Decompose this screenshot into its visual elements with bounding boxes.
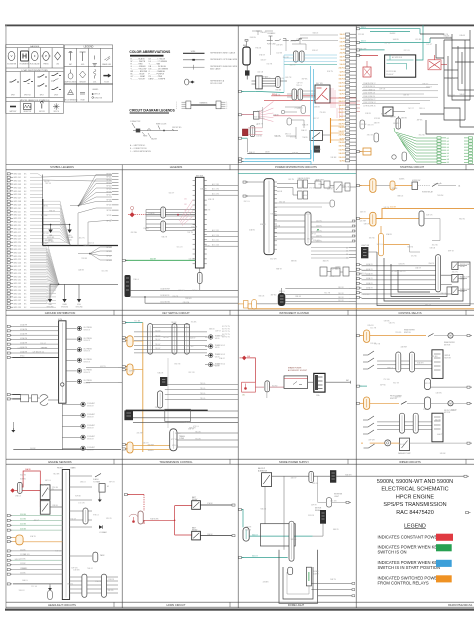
svg-text:52F LG: 52F LG [279, 291, 285, 293]
svg-text:31A GY: 31A GY [219, 357, 226, 360]
svg-text:44F BK: 44F BK [129, 371, 136, 373]
cyan pair bottom [245, 158, 311, 160]
svg-text:GRD 131: GRD 131 [13, 280, 21, 282]
svg-text:43E GN: 43E GN [313, 240, 320, 242]
svg-text:450A WH: 450A WH [20, 324, 28, 327]
sensor S4 [77, 358, 81, 362]
svg-text:30A F1: 30A F1 [339, 33, 344, 36]
svg-text:28C OR: 28C OR [188, 372, 195, 374]
pin row 27 [7, 262, 10, 264]
svg-text:45A OR: 45A OR [395, 395, 402, 398]
svg-text:71B YE: 71B YE [204, 246, 211, 248]
svg-text:126G VT/WH 24: 126G VT/WH 24 [363, 102, 375, 104]
svg-text:70A OR: 70A OR [157, 372, 164, 375]
twisted symbol [185, 79, 189, 85]
svg-text:261 TN: 261 TN [316, 220, 322, 222]
svg-text:HORN CIRCUIT: HORN CIRCUIT [167, 603, 186, 607]
starter relay K1 [256, 76, 263, 89]
ground [61, 284, 69, 308]
svg-text:25A F24: 25A F24 [339, 119, 345, 122]
relay under module [396, 118, 401, 129]
svg-text:SP122: SP122 [106, 255, 111, 257]
connector pin column right side [339, 33, 356, 163]
dome light box [260, 524, 295, 546]
svg-text:37D OR: 37D OR [367, 135, 374, 137]
key-on green feed [122, 259, 195, 261]
svg-text:351 G: 351 G [361, 41, 366, 43]
svg-text:39D RD: 39D RD [308, 515, 315, 517]
svg-text:12B GY: 12B GY [312, 483, 319, 485]
svg-text:88B GN: 88B GN [381, 113, 388, 115]
backlight feed [238, 300, 257, 309]
svg-text:LIGHT: LIGHT [334, 496, 339, 498]
svg-text:75C GN: 75C GN [383, 379, 390, 381]
svg-text:GRD 137: GRD 137 [13, 300, 21, 302]
svg-text:SP107: SP107 [106, 194, 111, 196]
orange rail [142, 323, 144, 453]
svg-text:SPARE POWER SUPPLY: SPARE POWER SUPPLY [279, 460, 309, 464]
svg-text:46A BK: 46A BK [273, 113, 280, 116]
svg-text:133: 133 [184, 210, 187, 212]
svg-text:82A GN: 82A GN [250, 36, 257, 39]
svg-text:S3 772 TN: S3 772 TN [222, 331, 230, 333]
svg-text:FLOW: FLOW [104, 81, 109, 83]
pin row 24 [7, 251, 10, 253]
svg-text:46C TN: 46C TN [79, 238, 86, 240]
svg-text:SWITCH: SWITCH [404, 332, 411, 334]
svg-text:75D BN: 75D BN [320, 112, 327, 114]
svg-text:82B RD: 82B RD [20, 478, 27, 480]
symbol table B (legend) [64, 45, 112, 102]
svg-text:26F LG: 26F LG [385, 42, 391, 44]
svg-text:42B OR: 42B OR [208, 199, 215, 201]
sensor S8 [81, 413, 85, 417]
svg-text:281 OR: 281 OR [338, 300, 344, 302]
pin row 14 [7, 217, 10, 219]
svg-text:791 OR: 791 OR [195, 438, 201, 440]
svg-text:405A GY: 405A GY [366, 273, 374, 276]
svg-text:88E BK: 88E BK [291, 261, 298, 263]
svg-text:10A OR: 10A OR [415, 266, 422, 269]
svg-text:LEGENDS: LEGENDS [170, 165, 183, 169]
teal feed wires top [357, 28, 362, 30]
wiper motor box [432, 350, 443, 379]
teal rail [238, 173, 356, 175]
junction [58, 284, 60, 286]
svg-text:LIGHT: LIGHT [314, 573, 319, 575]
svg-text:FROM CONTROL RELAYS: FROM CONTROL RELAYS [378, 581, 429, 586]
pink distribution fan [239, 114, 244, 116]
switch box [262, 473, 272, 487]
svg-text:41A RD: 41A RD [249, 229, 256, 232]
svg-text:34E GY: 34E GY [360, 211, 367, 213]
red bus wires [264, 85, 330, 100]
svg-text:OIL PRESS: OIL PRESS [83, 348, 91, 350]
svg-text:94F YE: 94F YE [384, 207, 390, 209]
svg-text:36A BN: 36A BN [148, 449, 155, 452]
svg-text:CONNECTOR: CONNECTOR [130, 121, 141, 123]
svg-text:SENSOR: SENSOR [87, 416, 95, 418]
svg-text:SWITCH IS IN START POSITION: SWITCH IS IN START POSITION [378, 565, 441, 570]
orange component [363, 148, 371, 155]
svg-text:30A F31: 30A F31 [339, 145, 345, 148]
svg-text:RELAY: RELAY [192, 529, 198, 532]
svg-text:76A GN: 76A GN [390, 115, 397, 118]
svg-text:HOURMETER: HOURMETER [20, 64, 31, 66]
sensor S6 [77, 379, 81, 383]
svg-text:58A GY: 58A GY [190, 336, 197, 339]
svg-text:86B YE: 86B YE [246, 527, 253, 529]
svg-text:42D WH: 42D WH [360, 221, 367, 223]
svg-text:76D TN: 76D TN [449, 78, 456, 80]
svg-text:50A RD: 50A RD [25, 468, 32, 471]
svg-text:15A F8: 15A F8 [339, 59, 344, 62]
svg-text:G8: G8 [447, 159, 449, 161]
svg-text:M: M [450, 335, 452, 338]
svg-text:59B GY: 59B GY [19, 590, 26, 592]
svg-text:SENSOR: SENSOR [83, 361, 91, 363]
svg-text:784 LG: 784 LG [200, 393, 206, 395]
pink vertical bundle right [331, 88, 335, 108]
svg-text:71E GN: 71E GN [270, 214, 277, 216]
svg-text:GRD 112: GRD 112 [13, 215, 20, 217]
svg-text:17E BN: 17E BN [296, 39, 303, 41]
svg-text:SP103: SP103 [106, 182, 111, 184]
svg-text:GROUND: GROUND [46, 306, 54, 308]
svg-text:B — CONNECTOR NO.: B — CONNECTOR NO. [130, 148, 148, 150]
svg-text:131: 131 [184, 199, 187, 201]
svg-text:53F OR: 53F OR [379, 88, 386, 90]
svg-text:GRD 113: GRD 113 [13, 218, 20, 220]
svg-text:19D RD: 19D RD [369, 238, 376, 240]
svg-text:27D GN: 27D GN [191, 226, 198, 228]
svg-text:5A F11: 5A F11 [340, 70, 345, 73]
washer box [432, 413, 443, 442]
sensor S1 [77, 326, 81, 330]
socket block [314, 373, 325, 392]
svg-text:30B WH: 30B WH [200, 188, 207, 190]
svg-text:LOAD DEVICES/MOTORS: LOAD DEVICES/MOTORS [21, 69, 48, 72]
svg-text:30A F7: 30A F7 [339, 55, 344, 58]
svg-text:70D YE: 70D YE [266, 63, 273, 65]
svg-text:SENSOR: SENSOR [83, 351, 91, 353]
svg-text:GRD 116: GRD 116 [13, 228, 20, 230]
svg-text:SENSOR: SENSOR [87, 438, 95, 440]
svg-text:29F VT: 29F VT [310, 233, 316, 235]
svg-text:86D OR: 86D OR [446, 37, 453, 39]
pin row 34 [7, 286, 10, 288]
svg-text:25D BK: 25D BK [43, 242, 50, 244]
svg-text:MISCELLANEOUS SYMBOLS: MISCELLANEOUS SYMBOLS [20, 99, 50, 102]
svg-text:80C GN: 80C GN [391, 271, 398, 273]
svg-text:CIRCUIT NO.: CIRCUIT NO. [172, 127, 182, 129]
pin row 13 [7, 214, 10, 216]
svg-text:STARTING CIRCUIT: STARTING CIRCUIT [400, 165, 425, 169]
svg-text:60D LB: 60D LB [245, 530, 252, 532]
svg-text:79C RD: 79C RD [344, 187, 351, 189]
svg-text:81C OR: 81C OR [42, 233, 49, 235]
svg-text:22C BN: 22C BN [358, 34, 365, 36]
svg-text:19A BK: 19A BK [399, 178, 406, 181]
svg-text:ACC 195: ACC 195 [212, 193, 219, 196]
svg-text:GRD 111: GRD 111 [13, 211, 20, 213]
motor relay dark box [320, 510, 326, 524]
inline connector pair [186, 101, 221, 109]
svg-text:97A BK: 97A BK [207, 502, 214, 505]
svg-text:SPDT: SPDT [40, 95, 44, 97]
svg-text:59E BK: 59E BK [384, 321, 391, 323]
svg-text:288 OR: 288 OR [338, 287, 344, 289]
svg-text:88D WH: 88D WH [360, 49, 367, 51]
svg-text:91C BK: 91C BK [134, 321, 141, 323]
svg-text:GRD 108: GRD 108 [13, 201, 21, 203]
svg-text:F: F [34, 54, 36, 58]
svg-text:45D OR: 45D OR [449, 95, 456, 97]
svg-text:98A BK: 98A BK [207, 533, 214, 536]
svg-text:17B OR: 17B OR [257, 110, 264, 112]
svg-text:31D YE: 31D YE [451, 409, 458, 411]
svg-text:OIL PRESS: OIL PRESS [83, 338, 91, 340]
svg-text:F5 G6 H7: F5 G6 H7 [387, 74, 394, 76]
svg-text:71A LG: 71A LG [192, 289, 198, 292]
svg-text:11D BN: 11D BN [256, 135, 263, 137]
svg-text:REPRESENTS WIRE / CABLE: REPRESENTS WIRE / CABLE [210, 51, 236, 54]
svg-text:28F LG: 28F LG [419, 108, 425, 110]
green pin stack [437, 137, 473, 164]
svg-text:61C GN: 61C GN [102, 271, 109, 273]
pin row 10 [7, 204, 10, 206]
svg-text:99E LG: 99E LG [387, 367, 393, 369]
svg-text:84A LG: 84A LG [313, 31, 319, 34]
band4 title strip [6, 601, 474, 603]
svg-text:ACC 185: ACC 185 [212, 183, 219, 186]
power feed (red diamond) [130, 212, 135, 217]
connector [265, 381, 270, 392]
svg-text:266 TN: 266 TN [316, 235, 322, 237]
svg-text:DB/W —— STRIPE: DB/W —— STRIPE [149, 78, 166, 80]
svg-text:69F WH: 69F WH [131, 232, 138, 234]
svg-text:GRD 105: GRD 105 [13, 191, 21, 193]
svg-text:12A GN: 12A GN [78, 269, 85, 272]
svg-text:87F BN: 87F BN [374, 118, 381, 120]
svg-text:10A F15: 10A F15 [339, 85, 345, 88]
svg-text:550 BK: 550 BK [20, 549, 26, 551]
svg-text:26D YE: 26D YE [290, 65, 297, 67]
svg-text:30A F25: 30A F25 [339, 122, 345, 125]
svg-text:513 GN: 513 GN [20, 529, 27, 531]
svg-text:16F RD: 16F RD [163, 337, 170, 339]
svg-text:GROUND: GROUND [66, 237, 74, 239]
sensor S7 [81, 402, 85, 406]
svg-text:CB1: CB1 [242, 395, 245, 397]
svg-text:62D BN: 62D BN [431, 356, 438, 358]
svg-text:SP101: SP101 [106, 176, 111, 178]
svg-text:G1: G1 [447, 138, 449, 140]
key switch relay (red box) [315, 85, 330, 103]
svg-text:37A OR: 37A OR [259, 54, 266, 57]
svg-text:25A F12: 25A F12 [339, 74, 345, 77]
svg-text:10A F21: 10A F21 [339, 108, 345, 111]
pin row 28 [7, 265, 10, 267]
svg-text:ENGINE SENSORS: ENGINE SENSORS [48, 460, 72, 464]
svg-text:15A F20: 15A F20 [339, 104, 345, 107]
svg-text:93F BN: 93F BN [331, 157, 338, 159]
svg-text:20A F28: 20A F28 [339, 134, 345, 137]
svg-text:GRD 103: GRD 103 [13, 184, 21, 186]
svg-text:63A BK: 63A BK [459, 34, 466, 37]
svg-text:86B YE: 86B YE [333, 529, 340, 531]
svg-text:141B BK/YE: 141B BK/YE [160, 295, 170, 297]
wire continuing across b4p4 to page edge [336, 475, 464, 477]
svg-text:GRD 102: GRD 102 [13, 181, 21, 183]
svg-text:27E LG: 27E LG [38, 352, 44, 354]
svg-text:GRD 132: GRD 132 [13, 283, 21, 285]
optional wire sample [183, 59, 205, 61]
pin row 4 [7, 183, 10, 185]
svg-text:MOTOR: MOTOR [444, 344, 451, 346]
svg-text:GRD 130: GRD 130 [13, 276, 21, 278]
gauge symbols [8, 51, 61, 61]
switch row dividers [19, 72, 21, 98]
pin row 3 [7, 180, 10, 182]
svg-text:20A F16: 20A F16 [339, 89, 345, 92]
svg-text:56A GN: 56A GN [460, 93, 467, 96]
svg-text:50F GN: 50F GN [24, 554, 31, 556]
svg-text:HORN RELAY: HORN RELAY [422, 191, 434, 194]
svg-text:FUSE: FUSE [81, 100, 85, 102]
svg-text:81F WH: 81F WH [41, 215, 48, 217]
svg-text:5A F5: 5A F5 [340, 48, 344, 51]
svg-text:ACCESSORY SOCKET: ACCESSORY SOCKET [288, 369, 308, 372]
switch symbols [10, 73, 62, 90]
pin row 25 [7, 255, 10, 257]
svg-text:70C BK: 70C BK [191, 322, 198, 324]
svg-text:12B RD: 12B RD [108, 579, 115, 581]
svg-text:134: 134 [184, 215, 187, 217]
svg-text:70F TN: 70F TN [187, 232, 193, 234]
svg-text:SPST NO: SPST NO [24, 95, 31, 97]
pin row 31 [7, 275, 10, 277]
legend swatch orange [436, 575, 452, 582]
svg-text:552 BK: 552 BK [20, 559, 26, 561]
svg-text:454A WH: 454A WH [20, 342, 28, 345]
svg-text:KEY SWITCH CIRCUIT: KEY SWITCH CIRCUIT [162, 311, 190, 315]
svg-text:59B WH: 59B WH [393, 123, 400, 125]
collector bus vertical [42, 199, 44, 246]
svg-text:JUNCTION: JUNCTION [95, 98, 103, 100]
svg-text:15F BK: 15F BK [175, 433, 182, 435]
svg-text:30A F13: 30A F13 [339, 78, 345, 81]
svg-text:98C RD: 98C RD [459, 219, 466, 221]
sensor S2 [77, 337, 81, 341]
pin row 1 [7, 173, 10, 175]
svg-text:WORK LIGHT: WORK LIGHT [460, 277, 470, 279]
svg-text:SENSOR: SENSOR [83, 383, 91, 385]
svg-text:GRD 133: GRD 133 [13, 287, 21, 289]
svg-text:122C OR/BK 16: 122C OR/BK 16 [363, 89, 375, 91]
svg-text:63F TN: 63F TN [425, 304, 431, 306]
svg-text:300 GR: 300 GR [150, 259, 157, 261]
svg-text:RESISTOR: RESISTOR [24, 111, 33, 113]
svg-text:WORK LIGHT: WORK LIGHT [460, 289, 470, 291]
svg-text:73E GY: 73E GY [279, 78, 286, 80]
power feed diamond [242, 356, 247, 361]
svg-text:GRD 126: GRD 126 [13, 263, 21, 265]
svg-text:54D TN: 54D TN [389, 323, 396, 325]
svg-text:INDICATES CONSTANT POWER: INDICATES CONSTANT POWER [378, 534, 441, 539]
breaker box [242, 382, 256, 392]
bottom row dividers [19, 102, 21, 114]
svg-text:INSTRUMENT CLUSTER: INSTRUMENT CLUSTER [279, 311, 309, 315]
svg-text:SP100: SP100 [106, 173, 111, 175]
svg-text:86A GY: 86A GY [249, 151, 256, 154]
svg-text:29A WH: 29A WH [315, 148, 322, 151]
svg-text:44B WH: 44B WH [401, 346, 408, 348]
pin row 21 [7, 241, 10, 243]
svg-text:341 LG: 341 LG [252, 556, 258, 558]
svg-text:GRD 109: GRD 109 [13, 204, 21, 206]
svg-text:GRD 123: GRD 123 [13, 252, 21, 254]
svg-text:51F GY: 51F GY [40, 343, 47, 345]
orange rail continue [356, 308, 474, 310]
svg-text:OIL PRESS: OIL PRESS [83, 370, 91, 372]
svg-text:75B LB: 75B LB [305, 213, 311, 215]
pin row 8 [7, 197, 10, 199]
svg-text:5900N, 5900N-WT AND 5900N: 5900N, 5900N-WT AND 5900N [377, 479, 453, 485]
svg-text:SP106: SP106 [106, 191, 111, 193]
svg-text:ALARM SW: ALARM SW [258, 469, 267, 472]
svg-text:G6: G6 [447, 153, 449, 155]
svg-text:ACC 136: ACC 136 [212, 234, 219, 237]
svg-text:12A LB: 12A LB [143, 227, 149, 230]
svg-text:11F OR: 11F OR [370, 343, 377, 345]
svg-text:20B TN: 20B TN [330, 579, 336, 581]
svg-text:G7: G7 [447, 156, 449, 158]
svg-text:SP123: SP123 [106, 260, 111, 262]
pin row 32 [7, 279, 10, 281]
svg-text:789 LG: 789 LG [200, 398, 206, 400]
pin row 26 [7, 258, 10, 260]
svg-text:GRD 125: GRD 125 [13, 259, 21, 261]
svg-text:72C RD: 72C RD [187, 346, 194, 348]
fan junction lower [89, 253, 91, 255]
switch [432, 183, 438, 187]
pin row 5 [7, 186, 10, 188]
svg-text:LEGEND: LEGEND [92, 89, 99, 91]
pin row 23 [7, 248, 10, 250]
sensor S10 [81, 435, 85, 439]
svg-text:67A OR: 67A OR [399, 263, 406, 266]
svg-text:SENSOR: SENSOR [83, 372, 91, 374]
svg-text:11A GY: 11A GY [261, 59, 268, 62]
svg-text:RELAY: RELAY [192, 498, 198, 501]
svg-text:310 OR: 310 OR [390, 207, 397, 209]
svg-text:G5: G5 [447, 150, 449, 152]
svg-text:38D TN: 38D TN [48, 489, 55, 491]
svg-text:99B BK: 99B BK [275, 90, 282, 92]
svg-text:87C GY: 87C GY [404, 50, 411, 52]
svg-text:451A WH: 451A WH [20, 328, 28, 331]
hatched splice under battery [245, 70, 250, 75]
ignition switch S1 [195, 177, 204, 268]
svg-text:84B YE: 84B YE [15, 559, 22, 561]
svg-text:81F YE: 81F YE [425, 383, 431, 385]
svg-text:76E RD: 76E RD [407, 246, 414, 248]
svg-text:21C LG: 21C LG [31, 586, 38, 588]
svg-text:35E GN: 35E GN [274, 135, 281, 137]
svg-text:90C LG: 90C LG [377, 244, 384, 246]
svg-text:85C RD: 85C RD [419, 134, 426, 136]
